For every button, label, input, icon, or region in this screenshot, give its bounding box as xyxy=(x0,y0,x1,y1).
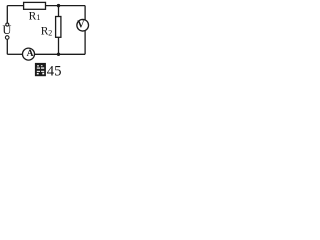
svg-text:U: U xyxy=(2,23,11,37)
svg-text:1: 1 xyxy=(36,12,40,22)
svg-text:45: 45 xyxy=(47,64,62,79)
svg-text:A: A xyxy=(27,49,34,59)
svg-text:2: 2 xyxy=(48,28,52,37)
svg-text:V: V xyxy=(77,20,85,31)
